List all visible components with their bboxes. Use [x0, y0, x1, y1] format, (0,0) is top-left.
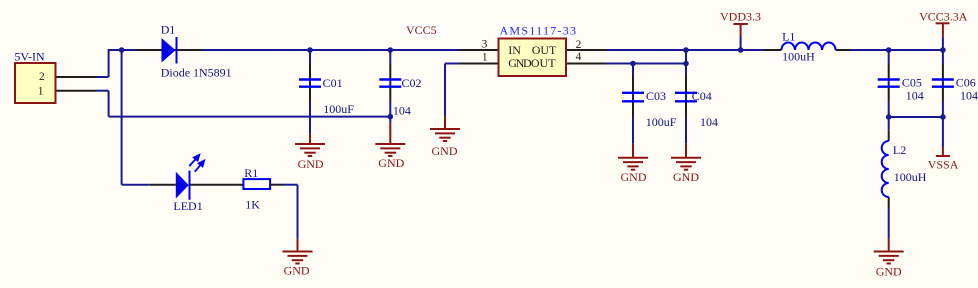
svg-text:GND: GND: [298, 157, 324, 171]
svg-text:3: 3: [482, 39, 488, 51]
svg-text:C01: C01: [323, 76, 343, 90]
svg-text:VCC3.3A: VCC3.3A: [919, 10, 968, 24]
svg-text:GND: GND: [284, 264, 310, 278]
svg-text:LED1: LED1: [173, 199, 202, 213]
svg-text:100uH: 100uH: [894, 170, 927, 184]
svg-text:100uF: 100uF: [646, 115, 677, 129]
svg-text:104: 104: [700, 115, 718, 129]
svg-text:GND: GND: [673, 170, 699, 184]
svg-text:1K: 1K: [245, 198, 260, 212]
svg-text:4: 4: [576, 51, 582, 63]
svg-text:VCC5: VCC5: [406, 23, 437, 37]
svg-text:5V-IN: 5V-IN: [14, 50, 45, 64]
svg-text:L1: L1: [782, 30, 795, 44]
svg-text:IN: IN: [508, 43, 521, 57]
svg-text:L2: L2: [893, 143, 906, 157]
svg-text:1: 1: [38, 86, 44, 98]
svg-text:VDD3.3: VDD3.3: [720, 10, 761, 24]
svg-text:104: 104: [906, 89, 924, 103]
svg-text:C06: C06: [956, 76, 976, 90]
svg-text:100uH: 100uH: [782, 50, 815, 64]
svg-text:GND: GND: [621, 170, 647, 184]
svg-text:AMS1117-33: AMS1117-33: [500, 23, 577, 37]
svg-text:2: 2: [576, 39, 582, 51]
svg-text:C05: C05: [902, 76, 922, 90]
svg-text:1: 1: [482, 52, 488, 64]
svg-text:GND: GND: [378, 156, 404, 170]
svg-text:2: 2: [39, 71, 45, 83]
svg-text:C04: C04: [692, 89, 712, 103]
svg-text:VSSA: VSSA: [928, 158, 959, 172]
svg-text:104: 104: [960, 89, 978, 103]
svg-text:OUT: OUT: [531, 56, 556, 70]
svg-text:GND: GND: [876, 264, 902, 278]
svg-text:GND: GND: [508, 56, 532, 70]
svg-text:C02: C02: [402, 76, 422, 90]
svg-text:R1: R1: [244, 166, 258, 180]
svg-text:Diode 1N5891: Diode 1N5891: [161, 66, 232, 80]
svg-text:OUT: OUT: [532, 43, 557, 57]
svg-text:GND: GND: [432, 144, 458, 158]
svg-text:100uF: 100uF: [323, 102, 354, 116]
svg-text:104: 104: [393, 104, 411, 118]
svg-text:C03: C03: [646, 89, 666, 103]
svg-text:D1: D1: [161, 22, 176, 36]
